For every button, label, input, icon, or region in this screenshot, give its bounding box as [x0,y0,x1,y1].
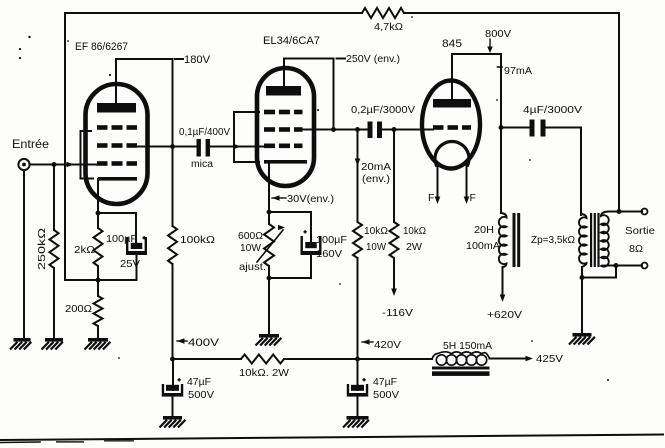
svg-text:Entrée: Entrée [12,139,49,151]
label -400V tap [177,337,220,349]
label 20H 100mA [466,224,500,252]
label 10k 10W [364,225,388,253]
label 100uF plus [106,233,146,245]
EL34 anode plate bar [266,86,301,96]
wire 10k10W drop [357,130,359,223]
label -180V [175,54,211,66]
label -420V tap [362,339,401,351]
wire right 47uF drop [357,359,359,390]
wire 845 grid leak [393,130,395,223]
wire secondary return [582,266,616,278]
EF86 grid g1 row [97,161,137,166]
tube EF86 envelope [86,84,148,204]
junction cathode res bottom [267,276,272,281]
label +620V [487,309,522,321]
label 47uF 500V left [178,376,215,401]
svg-text:20H: 20H [474,224,494,236]
inductor 5H 150mA [432,352,490,365]
OPT primary winding [579,214,587,267]
svg-text:Sortie: Sortie [625,225,655,237]
wire 845 anode top [452,54,501,213]
wire left 47uF to ground [172,397,174,416]
svg-text:10kΩ: 10kΩ [403,225,426,237]
capacitor 4uF 3000V [530,120,546,137]
wire EL34 anode to corner [284,59,334,130]
label EL34/6CA7 [263,35,320,47]
wire right 47uF to ground [357,397,359,416]
wire EL34 screen stub [303,129,334,131]
tube EL34 envelope [257,68,314,186]
wire feedback join [65,279,98,281]
svg-text:mica: mica [191,159,213,170]
svg-text:2kΩ: 2kΩ [74,244,95,256]
wire -400V bus left [173,358,242,360]
capacitor 47uF 500V right [347,384,369,397]
svg-text:420V: 420V [374,339,401,351]
label 100uF 160V plus [304,230,348,260]
wire cathode cap bottom [269,255,311,278]
capacitor 100uF 25V [126,237,147,255]
svg-text:Zp=3,5kΩ: Zp=3,5kΩ [531,234,575,246]
EF86 g3-cathode bracket [81,131,94,179]
wire cap to EL34 grid [210,146,266,148]
EL34 cathode lead [268,162,270,212]
wire EF86 screen to cap [137,146,197,148]
junction feedback takeoff [617,209,622,214]
svg-text:97mA: 97mA [504,65,532,77]
label 0.2uF/3000V [351,104,415,116]
resistor 10k 10W [353,222,362,258]
junction EF86 screen node [170,144,175,149]
label -30V env tap [272,193,334,205]
junction 845 anode node [499,125,504,130]
wire feedback left vertical [64,13,66,280]
signal arrow into EF86 grid [67,162,75,168]
svg-text:200Ω: 200Ω [65,303,92,315]
svg-text:845: 845 [442,38,462,50]
wire cap2 to 845 grid [382,129,433,131]
svg-text:400V: 400V [188,337,220,349]
wire cap branch top [98,213,136,243]
arrow adjustable [257,225,285,262]
svg-text:100mA: 100mA [466,240,500,252]
terminal sortie top [642,209,648,215]
wire left 47uF drop [172,359,174,390]
ground OPT [569,333,595,345]
label 250k [36,228,48,270]
svg-text:100µF: 100µF [316,234,347,246]
label 600 ohm [238,230,263,242]
EL34 g3-cathode bracket [234,112,259,162]
svg-text:10W: 10W [240,242,261,254]
wire anode to 4uF [501,127,530,129]
svg-text:500V: 500V [373,389,399,401]
svg-text:47µF: 47µF [373,376,397,388]
capacitor 47uF 500V left [162,384,184,397]
svg-text:8Ω: 8Ω [629,243,643,255]
845 filament dome [435,142,469,167]
svg-text:47µF: 47µF [187,376,211,388]
label 425V [536,353,563,365]
EL34 grid g2 row [264,127,303,132]
label 250V env [337,53,401,65]
svg-text:0,1µF/400V: 0,1µF/400V [179,126,230,138]
svg-text:4µF/3000V: 4µF/3000V [523,104,582,116]
wire OPT to ground [581,278,583,334]
label 25V [120,258,140,270]
ground left 47uF [160,416,186,428]
wire to 425V [490,356,534,362]
label Zp=3.5k [531,234,575,246]
20H core bars [513,213,521,267]
resistor 200 ohm [94,280,103,338]
wire cap branch bottom [98,255,137,280]
capacitor 0.2uF 3000V [368,122,383,139]
junction secondary bottom [614,263,619,268]
svg-text:600Ω: 600Ω [238,230,263,242]
junction bus 420V [355,357,360,362]
wire input to grid [30,164,98,166]
junction 10k10W tap [355,127,360,132]
scan specks [19,16,609,381]
ground 250k [42,338,64,350]
ground 200 ohm [85,338,111,350]
junction EL34 anode node [331,127,336,132]
OPT core laminations [590,213,600,267]
845 filament leg F left [428,164,440,204]
resistor 2k cathode [94,213,103,280]
wire EF86 anode to 180V corner [116,59,173,226]
wire bus middle [284,358,432,360]
ground EL34 cathode [256,334,282,346]
svg-text:+620V: +620V [487,309,522,321]
label 100k [180,234,215,246]
resistor 600 ohm adjustable [264,212,274,334]
ground right 47uF [343,416,369,428]
EL34 anode lead [283,59,285,87]
5H core bars [432,367,490,376]
junction bus left [170,357,175,362]
resistor 100k anode load [168,226,177,264]
junction EL34 cathode [267,210,272,215]
svg-text:0,2µF/3000V: 0,2µF/3000V [351,104,415,116]
junction OPT ground node [580,275,585,280]
wire secondary top to terminal [608,211,642,213]
wire choke to +620V [500,267,506,302]
label 4.7k [374,21,403,33]
svg-text:800V: 800V [485,28,511,40]
label 97mA [498,65,533,77]
svg-text:500V: 500V [188,389,214,401]
wire primary bottom [581,267,583,278]
svg-text:EF 86/6267: EF 86/6267 [75,41,128,53]
label 4uF/3000V [523,104,582,116]
resistor 10k 2W bus [241,355,284,364]
svg-text:250V (env.): 250V (env.) [346,53,400,65]
svg-text:10kΩ. 2W: 10kΩ. 2W [239,367,289,379]
capacitor 100uF 160V [301,236,322,255]
resistor 10k 2W grid [390,222,399,258]
wire 4uF to OPT [546,128,582,216]
label 10k 2W grid [403,225,426,253]
input connector J1 [18,159,29,170]
scan page edge line [0,435,663,443]
svg-text:10kΩ: 10kΩ [364,225,388,237]
signal arrow into EL34 grid [234,144,242,150]
inductor 20H 100mA [499,213,507,267]
EL34 grid g1 row [264,144,303,149]
wire 10k10W to bus [357,258,359,359]
svg-text:10W: 10W [366,241,386,253]
junction input/250k [52,162,57,167]
ground input jack [10,338,31,350]
EF86 cathode bar [98,177,137,181]
junction EF86 cathode [96,211,101,216]
label 5H 150mA [443,340,492,352]
label 20mA env [361,161,391,185]
EL34 cathode bar [264,160,307,164]
label mica [191,159,213,170]
label 845 [442,38,462,50]
svg-text:100µF: 100µF [106,233,137,245]
capacitor 0.1uF 400V mica [197,139,211,157]
svg-text:2W: 2W [406,241,422,253]
wire secondary bottom to terminal [606,265,642,267]
label Sortie 8ohm [625,225,655,255]
tube 845 envelope [422,81,480,169]
svg-text:-116V: -116V [382,307,413,319]
svg-text:425V: 425V [536,353,563,365]
label Entree [12,139,49,151]
label ajust [239,261,266,273]
svg-text:100kΩ: 100kΩ [180,234,215,246]
label EF86/6267 [75,41,128,53]
junction cathode bottom [96,278,101,283]
label -116V [382,307,413,319]
svg-text:160V: 160V [316,248,342,260]
wire 100k to -400V bus [172,264,174,359]
OPT secondary winding [601,212,609,267]
svg-text:ajust.: ajust. [239,261,266,273]
label 2k [74,244,95,256]
svg-text:F: F [428,192,434,204]
wire to -116V [391,258,397,296]
wire feedback right vertical [618,13,620,212]
label 47uF 500V right [363,376,400,401]
EF86 anode plate bar [97,103,136,113]
EF86 anode lead [115,59,117,103]
resistor 250k grid leak [50,165,59,339]
845 grid row [433,125,471,130]
845 anode plate bar [433,99,471,108]
svg-text:30V(env.): 30V(env.) [287,193,334,205]
svg-text:250kΩ: 250kΩ [36,228,48,270]
EF86 grid g2 row [97,143,137,148]
label 200 ohm [65,303,92,315]
terminal sortie bottom [642,263,648,269]
845 anode lead [451,54,453,99]
svg-text:180V: 180V [184,54,211,66]
wire feedback top rail [65,12,619,14]
arrow 20mA [355,159,361,167]
svg-text:4,7kΩ: 4,7kΩ [374,21,403,33]
EF86 cathode lead [97,179,99,213]
label 0.1uF/400V [179,126,230,138]
EF86 grid g3 row [97,125,137,130]
label 10k 2W bus [239,367,289,379]
label 800V [485,28,511,53]
wire EL34 cathode cap branch [269,212,311,242]
845 filament leg F right [464,164,476,204]
wire EL34 anode to cap2 [334,129,369,131]
svg-text:EL34/6CA7: EL34/6CA7 [263,35,320,47]
label 10W a [240,242,261,254]
svg-text:20mA: 20mA [361,161,391,173]
svg-text:(env.): (env.) [362,173,390,185]
junction 845 grid leak tap [392,127,397,132]
svg-text:5H 150mA: 5H 150mA [443,340,492,352]
resistor 4.7k feedback [362,8,404,18]
EL34 grid g3 row [264,110,303,115]
wire connector ground drop [23,170,25,338]
svg-text:F: F [470,192,476,204]
